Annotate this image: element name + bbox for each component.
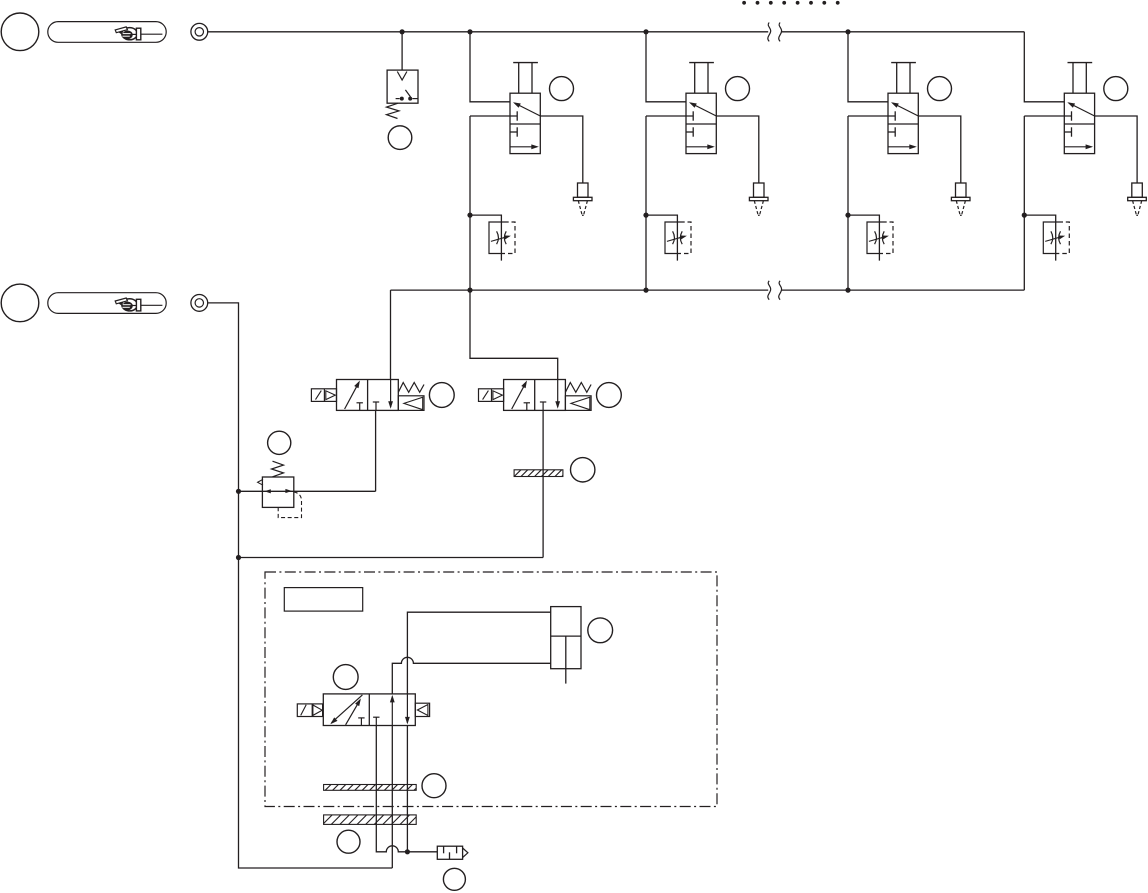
dotted separator line (742, 1, 839, 5)
feed-through orifice plate (514, 470, 563, 477)
supply line row 2 (down the left side) (208, 303, 393, 868)
wire bus to valve SV2 (470, 290, 558, 379)
air-operated 3-port valve V3 (cylinder actuator on top) (848, 63, 918, 154)
item label circle valve SV1 (429, 383, 454, 408)
node pressure switch tap (400, 29, 405, 34)
air-operated 3-port valve V1 (cylinder actuator on top) (470, 63, 540, 154)
wire tap to speed controller unit 2 (646, 215, 677, 261)
wire valve output down-run unit 3 (847, 116, 849, 290)
supply port connector (row 2) (191, 295, 208, 312)
solenoid 3-port valve SV2 (479, 380, 592, 411)
node supply bus unit 3 (845, 29, 850, 34)
speed controller (throttle) unit 1 (489, 222, 515, 254)
vacuum nozzle / silencer unit 3 (951, 183, 970, 215)
vacuum nozzle / silencer unit 1 (573, 183, 592, 215)
wire SV3 port B down (406, 726, 408, 852)
supply branch wire unit 2 (646, 32, 686, 102)
node exhaust junction (405, 849, 410, 854)
wire valve output down-run unit 4 (1023, 116, 1025, 290)
output manifold bus (row 1 bottom) (391, 289, 769, 291)
reference label circle (row 1) (1, 13, 39, 51)
wire valve to nozzle unit 4 (1095, 116, 1138, 183)
supply branch wire unit 3 (848, 32, 888, 102)
speed controller (throttle) unit 3 (867, 222, 893, 254)
hand-pointer pill label (row 1) (48, 22, 166, 43)
speed controller (throttle) unit 2 (665, 222, 691, 254)
vacuum nozzle / silencer unit 4 (1128, 183, 1147, 215)
item label circle regulator (268, 431, 291, 454)
node regulator supply tap (236, 489, 241, 494)
supply port connector (row 1) (191, 23, 208, 40)
pressure switch PS1 (387, 70, 419, 118)
wire valve to nozzle unit 1 (540, 116, 583, 183)
feed-through plate lower (324, 815, 417, 825)
node supply bus unit 2 (643, 29, 648, 34)
solenoid 4-port valve SV3 (297, 694, 429, 726)
wire SV3 supply port (391, 726, 393, 869)
wire cylinder rod-side (with crossover hop) (392, 657, 550, 694)
item label circle cylinder (588, 618, 613, 643)
item label circle silencer (443, 868, 465, 890)
node output bus unit 3 (845, 288, 850, 293)
wire valve to nozzle unit 3 (918, 116, 961, 183)
node speed-controller tap unit 2 (643, 213, 648, 218)
air-operated 3-port valve V2 (cylinder actuator on top) (646, 63, 716, 154)
reference label circle (row 2) (1, 284, 39, 322)
air-operated 3-port valve V4 (cylinder actuator on top) (1024, 63, 1094, 154)
supply branch wire unit 1 (470, 32, 510, 102)
node lower bus tap (236, 555, 241, 560)
wire valve output down-run unit 1 (469, 116, 471, 290)
exhaust silencer SIL (437, 846, 468, 859)
machine enclosure (chain line box) (265, 572, 717, 807)
wire tap to speed controller unit 3 (848, 215, 879, 261)
wire tap to speed controller unit 1 (470, 215, 501, 261)
supply branch wire unit 4 (1024, 32, 1064, 102)
item label circle valve SV3 (333, 665, 358, 690)
solenoid 3-port valve SV1 (311, 380, 424, 411)
node supply bus unit 1 (467, 29, 472, 34)
node speed-controller tap unit 4 (1022, 213, 1027, 218)
node speed-controller tap unit 3 (845, 213, 850, 218)
feed-through plate upper (324, 785, 417, 791)
wire bus to valve SV1 (390, 290, 392, 379)
wire valve to nozzle unit 2 (716, 116, 759, 183)
top supply bus (row 1) (208, 31, 769, 33)
item label circle pressure switch (388, 126, 412, 150)
wire tap to speed controller unit 4 (1024, 215, 1055, 261)
wire cylinder head-side (407, 612, 550, 694)
wire SV2 output down (542, 410, 544, 557)
speed controller (throttle) unit 4 (1043, 222, 1069, 254)
item label circle plate upper (422, 774, 446, 798)
item label circle unit 2 (726, 77, 750, 101)
hand-pointer pill label (row 2) (48, 293, 166, 314)
line break marks on top bus (768, 23, 771, 42)
regulator flow line (239, 490, 376, 492)
item label circle unit 1 (550, 77, 574, 101)
node output bus unit 2 (643, 288, 648, 293)
item label circle plate lower (337, 830, 360, 853)
wire SV1 output to regulator (375, 410, 377, 491)
compact air cylinder CYL (551, 607, 581, 684)
node output bus unit 1 (467, 288, 472, 293)
wire SV3 exhaust port (with crossover hop) (376, 726, 437, 852)
line break marks on output bus (768, 281, 771, 300)
name plate rectangle (284, 588, 362, 612)
pressure regulator R1 (258, 461, 302, 517)
wire row2 lower bus (239, 557, 544, 559)
item label circle valve SV2 (597, 383, 622, 408)
item label circle orifice (571, 458, 595, 482)
vacuum nozzle / silencer unit 2 (749, 183, 768, 215)
node speed-controller tap unit 1 (467, 213, 472, 218)
item label circle unit 3 (928, 77, 952, 101)
item label circle unit 4 (1104, 77, 1128, 101)
wire to pressure switch (401, 32, 403, 70)
wire valve output down-run unit 2 (645, 116, 647, 290)
